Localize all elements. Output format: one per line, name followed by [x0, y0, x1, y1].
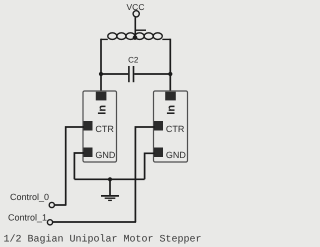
wire U2 CTR to Control_1 [135, 127, 154, 222]
U2 pin CTR [154, 121, 163, 131]
wire cap right segment [134, 73, 170, 75]
U1 pin CTR [84, 121, 93, 131]
node ground junction [108, 177, 112, 181]
svg-text:GND: GND [95, 150, 116, 160]
svg-text:GND: GND [166, 150, 187, 160]
wire tick at VCC bend [135, 29, 146, 31]
wire ground bus [74, 178, 144, 180]
U1 pin In (top) [96, 92, 107, 101]
svg-text:Control_1: Control_1 [8, 212, 47, 222]
svg-text:Control_0: Control_0 [10, 192, 49, 202]
U1 pin GND [84, 148, 93, 158]
wire U1 GND to ground bus [74, 153, 84, 179]
U2 pin In (top) [165, 92, 176, 101]
wire right rail down from coil [169, 39, 171, 92]
svg-text:CTR: CTR [166, 124, 185, 134]
terminal circle Control_1 [47, 220, 52, 225]
node cap left junction [99, 72, 103, 76]
transistor driver U2 body [154, 91, 188, 162]
svg-text:1/2 Bagian Unipolar Motor Step: 1/2 Bagian Unipolar Motor Stepper [4, 233, 202, 245]
wire cap left segment [101, 73, 128, 75]
inductor L1 motor winding (center-tapped coil) [101, 33, 170, 40]
node cap right junction [168, 72, 172, 76]
svg-text:CTR: CTR [95, 124, 114, 134]
capacitor C2 plates [128, 66, 130, 82]
svg-text:In: In [166, 105, 178, 115]
wire VCC vertical [134, 17, 136, 37]
node center-tap junction [133, 35, 138, 40]
ground symbol [101, 179, 119, 200]
terminal circle Control_0 [49, 202, 54, 207]
transistor driver U1 body [83, 91, 117, 162]
wire left rail down from coil [100, 39, 102, 92]
U2 pin GND [154, 148, 163, 158]
power terminal circle VCC [133, 11, 139, 17]
wire Control_0 [55, 204, 67, 206]
svg-text:C2: C2 [128, 55, 139, 64]
svg-text:In: In [96, 105, 108, 115]
wire Control_1 [53, 221, 136, 223]
wire U2 GND to ground bus [145, 153, 155, 179]
wire U1 CTR to Control_0 [66, 127, 84, 205]
